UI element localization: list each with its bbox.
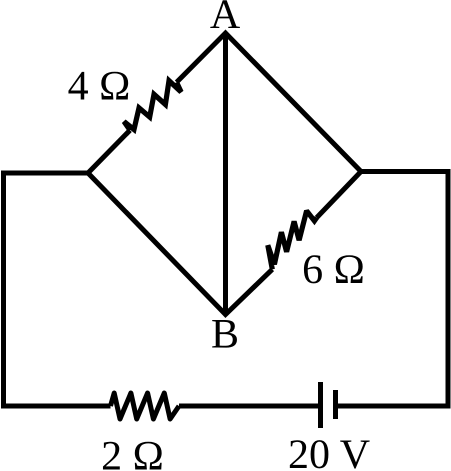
wire bottom middle: 2 ohm to battery (179, 404, 318, 409)
svg-text:4 Ω: 4 Ω (68, 64, 131, 110)
svg-text:A: A (210, 0, 241, 38)
resistor 2 ohm (bottom wire) (111, 393, 180, 419)
resistor 4 ohm (upper-left diamond edge) (124, 81, 181, 131)
wire 6 ohm to diamond right corner (317, 172, 361, 218)
wire right branch: battery to outer right side up to diamond right corner (338, 172, 448, 407)
svg-text:6 Ω: 6 Ω (302, 247, 365, 293)
battery 20 V negative plate (short) (333, 390, 338, 419)
svg-text:2 Ω: 2 Ω (101, 434, 164, 471)
wire left corner through node B to 6 ohm lead (88, 173, 272, 315)
svg-text:20 V: 20 V (288, 432, 370, 471)
wire 4 ohm through node A apex to diamond right corner (177, 33, 361, 172)
wire diamond lower-left lead from left corner to 4 ohm (88, 130, 130, 173)
wire left branch: diamond left corner to outer left side down to bottom (4, 173, 111, 406)
battery 20 V positive plate (long) (318, 382, 323, 428)
wire node A to node B (middle branch) (223, 33, 228, 315)
svg-text:B: B (211, 312, 239, 358)
resistor 6 ohm (lower-right diamond edge) (268, 211, 317, 269)
